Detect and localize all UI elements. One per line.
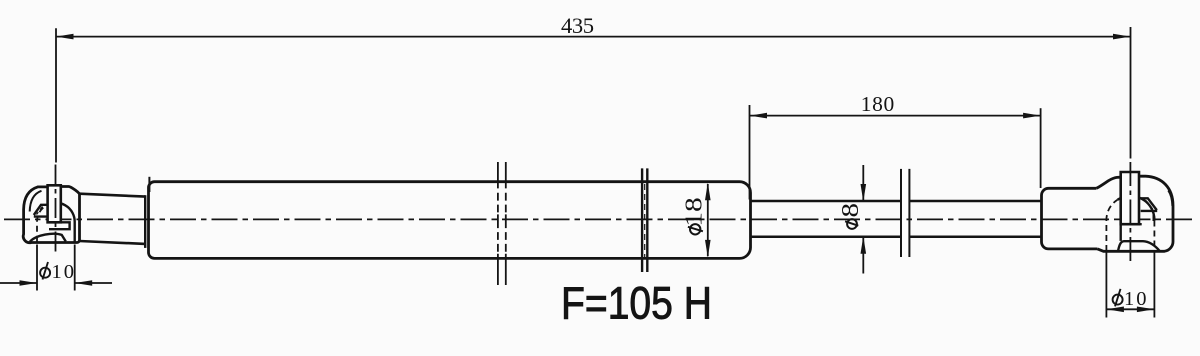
dim 435 arrow left [56,34,74,40]
right socket cavity arch (dashed far side) [1106,200,1117,251]
dim phi10 left arrowhead left-pointing [75,280,93,286]
centerline main horizontal axis [4,218,1196,220]
right socket clip wedge [1141,198,1158,211]
dim phi10 left ext lines [37,245,75,291]
left ball socket inner dome arc [30,191,42,212]
dim phi18 arrow up [705,183,711,201]
left socket clip wedge hidden diagonal [37,207,43,215]
left ball socket cavity arch (solid near side) [47,203,75,242]
left socket bottom opening arc [30,234,66,242]
right fitting vertical centerline [1129,162,1131,264]
cylinder end cap tick [148,177,150,192]
dim 435 ext line left [55,28,57,162]
left ball socket outer contour [23,187,79,243]
piston rod end block [1042,188,1098,249]
right socket cavity arch (solid near side) [1118,196,1155,221]
dim 180 ext line left [749,105,751,200]
dim phi10 left arrow lines [0,282,112,284]
dim phi10 right arrowhead right [1137,307,1155,313]
label phi18 rotated [680,197,707,234]
left eyelet cone face [144,195,146,248]
right socket clip wedge hidden diagonal [1146,201,1153,210]
dim 180 line [750,115,1041,117]
svg-text:F=105 H: F=105 H [561,278,712,329]
right socket tab left edge lower extension [1119,224,1121,241]
left socket tab [48,185,61,222]
rod break line pair [900,169,902,257]
cylinder body tube [149,182,751,259]
left socket step under tab [49,222,70,229]
label phi10 right: phi symbol [1113,289,1123,307]
dim phi10 right arrow line [1106,308,1154,310]
dim 180 arrow left [750,113,768,119]
left eyelet cone adapter bottom line [79,241,145,244]
label phi8 rotated [837,203,864,229]
dim phi10 right ext lines [1106,252,1154,318]
dim phi10 right arrowhead left [1106,307,1124,313]
rod lower line [751,236,1042,239]
dim phi18 arrow down [705,240,711,258]
cylinder break line pair 1 [497,162,499,285]
dim phi10 left arrowhead right-pointing [20,280,38,286]
svg-text:10: 10 [52,261,75,283]
right socket bottom opening arc [1118,241,1160,251]
right socket bore edge below wedge [1153,211,1155,221]
cylinder seam line pair 2 [641,168,643,272]
seam hidden dash between [644,184,646,258]
right socket arch right side hidden [1153,221,1155,252]
left eyelet cone adapter top line [80,194,146,197]
left ball socket cavity arch (dashed far side) [37,205,47,242]
dim phi18 arrow line [707,184,709,256]
left socket clip wedge [34,205,48,217]
rod upper line [751,200,1042,203]
dim 180 arrow right [1023,113,1041,119]
svg-text:18: 18 [680,197,707,226]
dim 435 arrow right [1113,34,1131,40]
dim phi8 arrow line bottom [862,238,864,274]
dim phi8 arrow down (top) [861,184,867,202]
dim 180 ext line right [1040,108,1042,188]
right socket tab bottom line extension [1139,223,1142,225]
dim 435 line [56,36,1131,38]
right socket tab [1121,172,1139,224]
svg-text:10: 10 [1124,288,1147,310]
label phi10 left: phi symbol [40,262,50,280]
svg-text:435: 435 [561,13,594,38]
left fitting vertical centerline [55,165,57,254]
right ball socket outer contour [1097,176,1174,251]
dim phi8 arrow up (bottom) [861,236,867,254]
svg-text:180: 180 [861,92,895,116]
svg-text:8: 8 [837,203,864,218]
dim phi8 arrow line top [862,165,864,200]
right ball socket inner dome arc [1168,191,1172,207]
dim 435 ext line right [1130,27,1132,159]
